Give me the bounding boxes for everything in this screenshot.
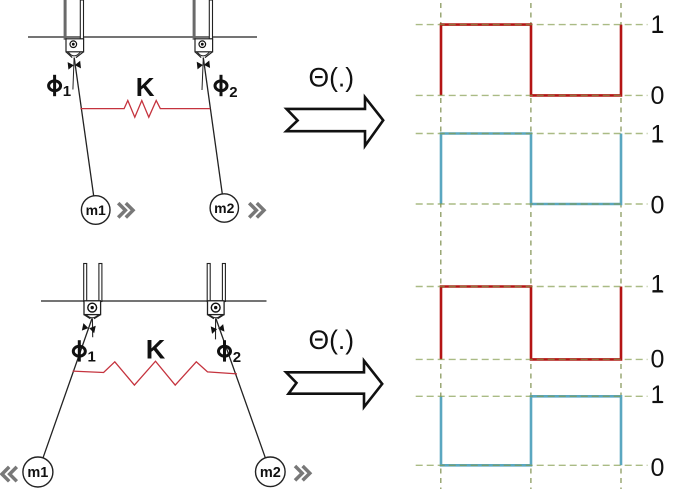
svg-text:2: 2 — [229, 84, 237, 101]
svg-text:m2: m2 — [260, 465, 281, 481]
angle marker phi1 top — [68, 61, 81, 70]
chevrons right of m2 bottom — [295, 466, 310, 480]
pendulum rod top-right — [203, 58, 222, 194]
grid vertical dashed line x=441 — [440, 3, 442, 489]
grid horizontal dashed line level 0 panel 3 — [416, 358, 648, 360]
grid horizontal dashed line level 0 panel 2 — [416, 203, 648, 205]
svg-text:0: 0 — [651, 454, 665, 482]
svg-text:1: 1 — [63, 83, 71, 100]
pivot bracket top-left — [64, 0, 84, 58]
block arrow bottom — [286, 361, 382, 407]
pivot bracket bottom-right — [207, 264, 225, 319]
mass m1 top — [81, 196, 110, 225]
svg-text:K: K — [146, 335, 166, 365]
spring K top — [80, 101, 210, 118]
svg-text:1: 1 — [651, 270, 665, 298]
grid horizontal dashed line level 0 panel 4 — [416, 464, 648, 466]
grid horizontal dashed line level 0 panel 1 — [416, 94, 648, 96]
angle marker phi1 bottom — [82, 323, 96, 333]
grid horizontal dashed line level 1 panel 3 — [416, 286, 648, 288]
svg-text:0: 0 — [651, 191, 665, 219]
label phi2 bottom — [219, 340, 231, 361]
grid horizontal dashed line level 1 panel 2 — [416, 133, 648, 135]
svg-text:2: 2 — [233, 349, 241, 366]
grid horizontal dashed line level 1 panel 4 — [416, 395, 648, 397]
svg-text:m1: m1 — [27, 465, 48, 481]
blue square wave top (in phase) — [441, 134, 621, 205]
svg-text:Θ(.): Θ(.) — [309, 325, 355, 355]
grid vertical dashed line x=621 — [620, 3, 622, 489]
pendulum rod bottom-right — [216, 319, 265, 458]
pivot bracket bottom-left — [84, 264, 102, 319]
vertical reference line top-left — [73, 58, 74, 90]
spring K bottom — [73, 361, 237, 385]
svg-text:1: 1 — [88, 348, 96, 365]
label phi1 bottom — [73, 340, 85, 361]
mass m2 bottom — [255, 457, 285, 487]
red square wave bottom — [441, 287, 621, 360]
pivot bracket top-right — [193, 0, 213, 58]
svg-text:m2: m2 — [214, 200, 234, 216]
mass m2 top — [210, 194, 238, 222]
pendulum rod top-left — [74, 58, 94, 196]
vertical reference line bottom-left — [91, 319, 93, 338]
red square wave top (in phase) — [441, 25, 621, 96]
label phi2 top — [215, 75, 227, 96]
angle marker phi2 top — [197, 60, 210, 69]
label phi1 top — [49, 75, 61, 96]
vertical reference line top-right — [202, 58, 203, 90]
svg-text:0: 0 — [651, 82, 665, 110]
blue square wave bottom (anti phase) — [441, 396, 621, 465]
grid vertical dashed line x=531 — [530, 3, 532, 489]
pendulum rod bottom-left — [43, 319, 92, 459]
chevrons left of m1 bottom — [2, 467, 17, 481]
svg-text:Θ(.): Θ(.) — [309, 63, 355, 93]
mass m1 bottom — [23, 457, 53, 487]
vertical reference line bottom-right — [215, 319, 217, 340]
chevrons right of m2 top — [249, 203, 264, 217]
svg-text:K: K — [136, 72, 155, 102]
chevrons right of m1 top — [118, 203, 133, 217]
block arrow top — [286, 97, 383, 146]
svg-text:1: 1 — [651, 120, 665, 148]
grid horizontal dashed line level 1 panel 1 — [416, 24, 648, 26]
svg-text:0: 0 — [651, 345, 665, 373]
angle marker phi2 bottom — [211, 324, 225, 334]
ceiling line top — [28, 36, 257, 38]
svg-text:m1: m1 — [86, 202, 106, 218]
svg-text:1: 1 — [651, 381, 665, 409]
svg-text:1: 1 — [651, 11, 665, 39]
ceiling line bottom — [41, 300, 267, 302]
